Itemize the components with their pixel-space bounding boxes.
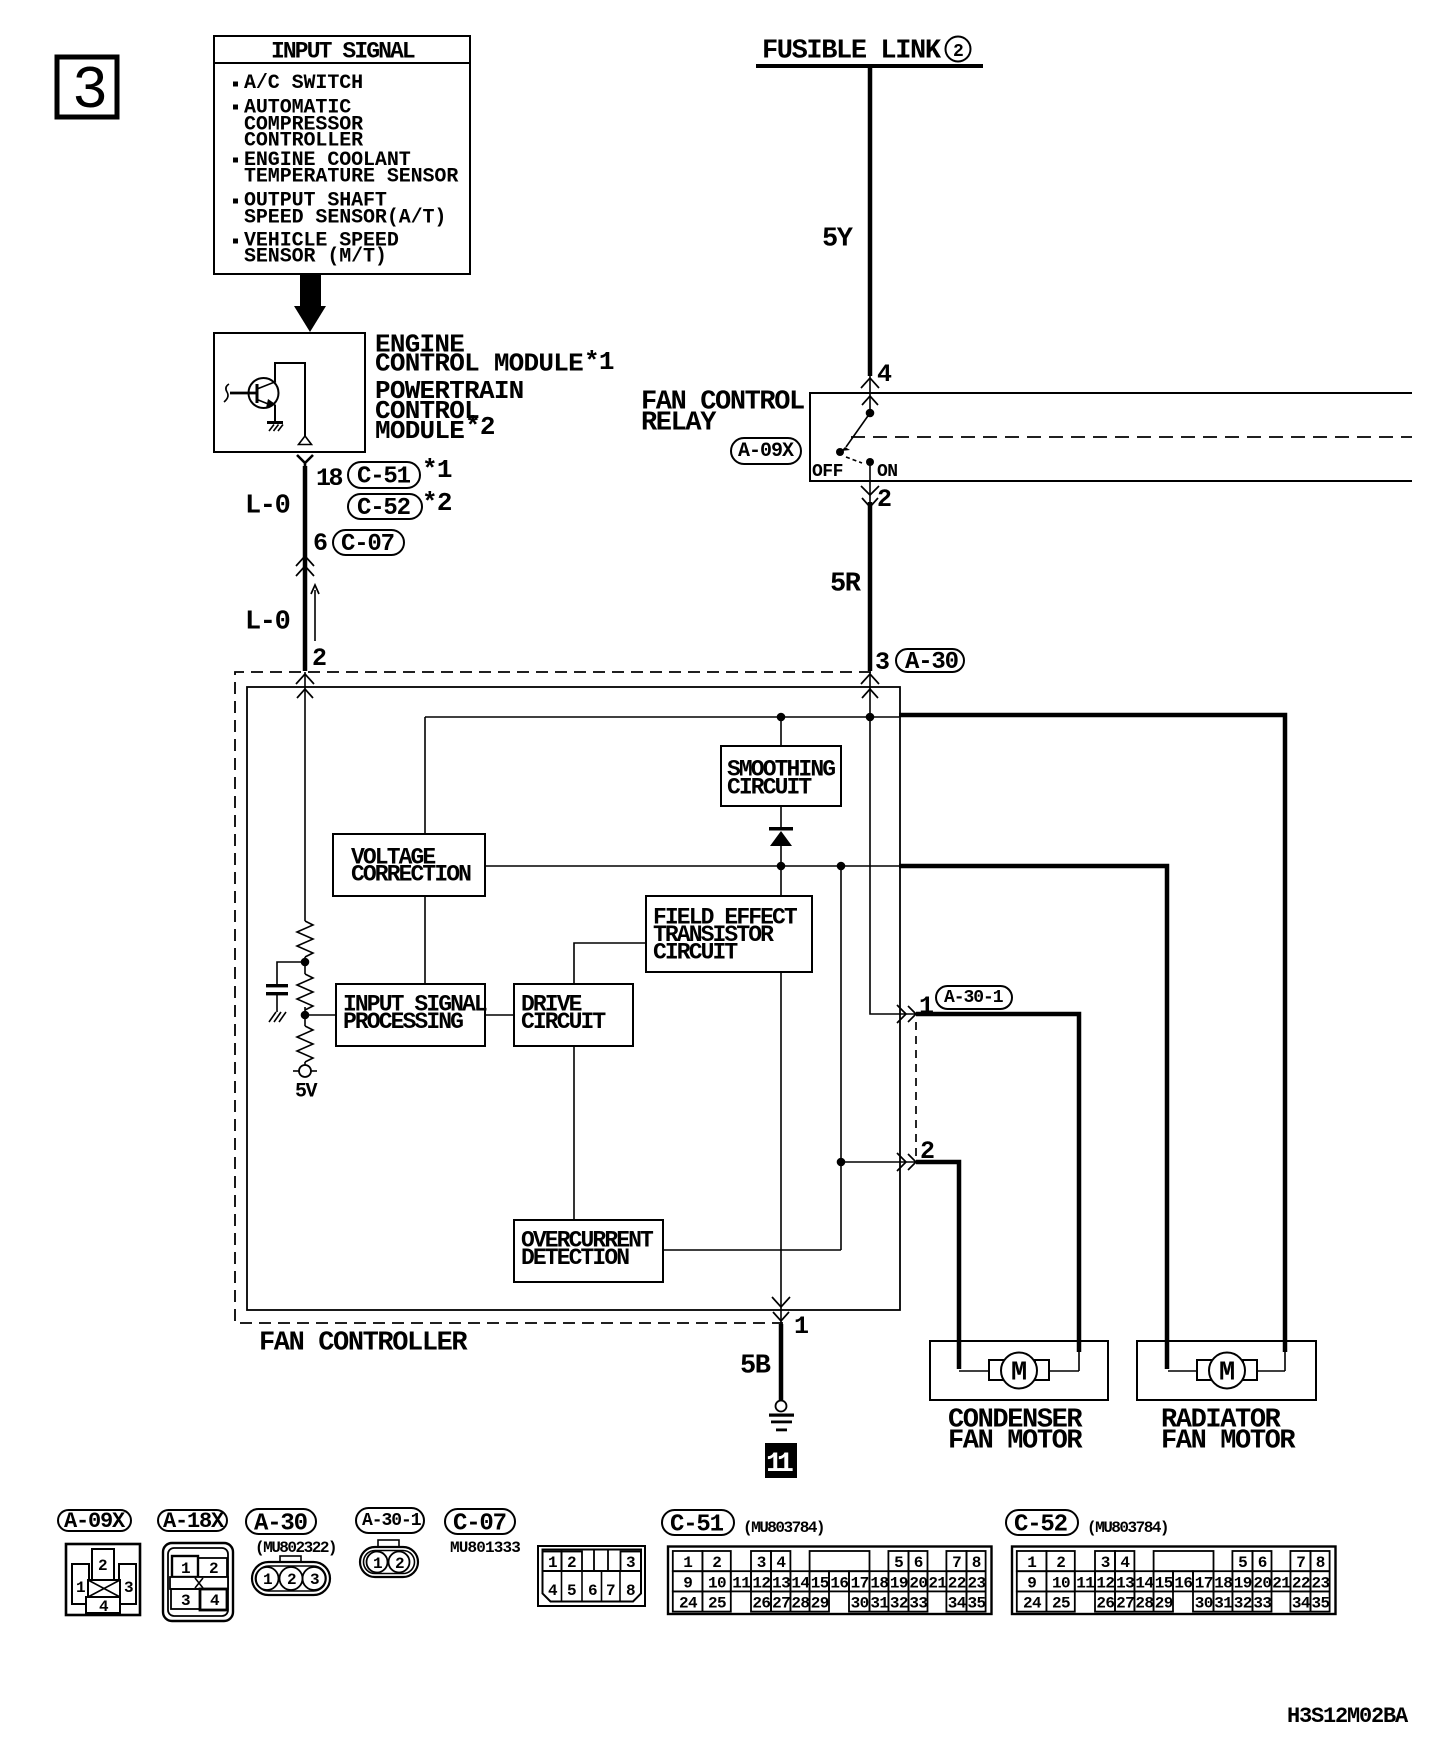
svg-text:6: 6 <box>914 1554 923 1572</box>
svg-text:1: 1 <box>794 1312 808 1341</box>
ground symbol <box>769 1401 794 1432</box>
wire from pin2 to divider <box>304 672 306 921</box>
svg-text:12: 12 <box>752 1574 770 1592</box>
transistor Q1 <box>224 363 312 445</box>
C-52 part number <box>1087 1519 1168 1537</box>
wire label 5B <box>740 1351 771 1381</box>
svg-text:35: 35 <box>1312 1595 1330 1613</box>
svg-text:1: 1 <box>683 1554 692 1572</box>
top bus thin segment <box>425 716 899 718</box>
svg-text:FAN MOTOR: FAN MOTOR <box>948 1426 1083 1456</box>
wire 5B <box>779 1324 784 1400</box>
svg-text:30: 30 <box>1195 1595 1213 1613</box>
svg-text:4: 4 <box>548 1582 558 1600</box>
block: field effect transistor circuit U4 <box>646 896 812 972</box>
svg-text:2: 2 <box>312 644 326 673</box>
wire drive to overcurrent <box>573 1046 575 1220</box>
pin 1 output A-30-1 <box>897 992 933 1023</box>
svg-text:3: 3 <box>310 1571 319 1589</box>
mid bus thin segment <box>485 865 899 867</box>
connector A-30 capsule <box>896 649 964 676</box>
svg-text:6: 6 <box>1258 1554 1267 1572</box>
ON label <box>877 462 898 482</box>
wire ISP to drive <box>485 1014 514 1016</box>
svg-text:1: 1 <box>548 1554 557 1572</box>
svg-text:A-30-1: A-30-1 <box>944 988 1004 1008</box>
capacitor C1 branch <box>266 962 305 1022</box>
svg-text:FAN MOTOR: FAN MOTOR <box>1161 1426 1296 1456</box>
C-07 part number <box>450 1539 520 1557</box>
svg-text:14: 14 <box>1135 1574 1154 1592</box>
wire L-0 from ECM to fan controller pin 2 <box>296 455 314 698</box>
connector A-30-1 capsule <box>936 986 1012 1009</box>
wire mid-bus branch down to pin 2 <box>837 866 918 1250</box>
svg-text:2: 2 <box>953 42 963 62</box>
pin 6 label <box>313 529 327 558</box>
engine control module box <box>214 333 365 452</box>
junction mid bus / diode <box>777 862 786 871</box>
svg-text:17: 17 <box>1195 1574 1213 1592</box>
fan controller dashed boundary <box>235 672 871 1323</box>
svg-text:9: 9 <box>683 1574 692 1592</box>
svg-text:A-18X: A-18X <box>163 1509 225 1534</box>
OFF label <box>812 462 843 482</box>
svg-text:CIRCUIT: CIRCUIT <box>521 1009 606 1035</box>
svg-text:33: 33 <box>1253 1595 1271 1613</box>
svg-text:A-30: A-30 <box>905 649 959 676</box>
block: input signal processing U5 <box>336 984 487 1046</box>
connector A-18X pinout capsule <box>158 1509 227 1534</box>
svg-text:10: 10 <box>1052 1574 1070 1592</box>
diode D1 <box>769 827 793 866</box>
svg-text:21: 21 <box>928 1574 946 1592</box>
radiator fan motor M2 <box>1137 1341 1316 1400</box>
svg-text:26: 26 <box>1096 1595 1114 1613</box>
svg-text:18: 18 <box>316 464 343 493</box>
wire smoothing branch <box>780 717 782 827</box>
resistor R3 <box>297 1026 313 1062</box>
svg-text:C-52: C-52 <box>1014 1511 1067 1538</box>
pin 2 output A-30-1 <box>897 1137 934 1171</box>
svg-text:6: 6 <box>313 529 327 558</box>
connector C-07 pinout drawing <box>538 1546 645 1606</box>
svg-text:34: 34 <box>948 1595 967 1613</box>
svg-text:A-09X: A-09X <box>738 440 794 463</box>
wire FET output down to pin 1 <box>780 972 782 1324</box>
svg-text:3: 3 <box>181 1592 190 1610</box>
svg-text:11: 11 <box>1076 1574 1094 1592</box>
wire pin3 feed down to pin 1 (A-30-1) <box>870 672 918 1014</box>
svg-text:25: 25 <box>1052 1595 1070 1613</box>
svg-text:2: 2 <box>395 1555 404 1573</box>
block: drive circuit U6 <box>514 984 633 1046</box>
svg-text:15: 15 <box>1155 1574 1173 1592</box>
svg-text:7: 7 <box>952 1554 961 1572</box>
svg-text:MODULE: MODULE <box>375 416 464 446</box>
svg-text:1: 1 <box>919 992 933 1021</box>
svg-text:15: 15 <box>811 1574 829 1592</box>
svg-text:*2: *2 <box>422 488 452 518</box>
svg-text:2: 2 <box>209 1560 218 1578</box>
wire label L-0 upper <box>245 491 290 521</box>
svg-text:L-0: L-0 <box>245 491 290 521</box>
svg-text:ON: ON <box>877 462 898 482</box>
junction mid bus / pin2 feed <box>837 862 846 871</box>
svg-text:21: 21 <box>1272 1574 1290 1592</box>
wire overcurrent output <box>663 1249 841 1251</box>
svg-text:H3S12M02BA: H3S12M02BA <box>1287 1704 1409 1729</box>
node A junction <box>301 957 310 974</box>
INPUT SIGNAL box <box>214 36 470 274</box>
svg-text:32: 32 <box>890 1595 908 1613</box>
connector C-51 pinout capsule <box>662 1510 734 1538</box>
wire 5Y <box>868 68 873 376</box>
svg-text:20: 20 <box>1253 1574 1271 1592</box>
svg-text:33: 33 <box>909 1595 927 1613</box>
svg-text:5: 5 <box>894 1554 903 1572</box>
svg-text:C-52: C-52 <box>357 495 410 522</box>
ground reference box 11 <box>765 1443 797 1480</box>
wire diode junction to FET box <box>780 866 782 896</box>
wire label 5R <box>830 569 862 599</box>
relay pin 4 <box>861 360 892 405</box>
svg-text:*2: *2 <box>465 412 495 442</box>
arrow from input signal to ECM <box>294 274 326 332</box>
direction arrow on L-0 wire <box>311 585 319 641</box>
svg-text:(MU803784): (MU803784) <box>743 1519 824 1537</box>
svg-text:19: 19 <box>890 1574 908 1592</box>
svg-text:M: M <box>1011 1359 1027 1389</box>
svg-text:*1: *1 <box>422 455 452 485</box>
svg-text:A-30: A-30 <box>254 1510 308 1537</box>
block: overcurrent detection U7 <box>514 1220 663 1282</box>
svg-text:5: 5 <box>1238 1554 1247 1572</box>
svg-text:1: 1 <box>373 1555 382 1573</box>
fan control relay box A-09X <box>810 393 1412 481</box>
svg-text:CIRCUIT: CIRCUIT <box>727 775 812 801</box>
svg-text:C-51: C-51 <box>357 463 411 490</box>
svg-text:11: 11 <box>732 1574 750 1592</box>
svg-text:2: 2 <box>1056 1554 1065 1572</box>
thick wire pin2 to condenser fan left <box>916 1162 959 1369</box>
connector C-52 capsule <box>348 488 452 522</box>
svg-text:12: 12 <box>1096 1574 1114 1592</box>
svg-text:C-51: C-51 <box>670 1511 724 1538</box>
svg-text:RELAY: RELAY <box>641 408 717 438</box>
svg-text:3: 3 <box>72 58 108 126</box>
svg-text:27: 27 <box>1116 1595 1134 1613</box>
svg-text:(MU802322): (MU802322) <box>255 1539 336 1557</box>
svg-text:M: M <box>1219 1359 1235 1389</box>
svg-text:CIRCUIT: CIRCUIT <box>653 940 738 966</box>
svg-text:OFF: OFF <box>812 462 843 482</box>
svg-text:3: 3 <box>1101 1554 1110 1572</box>
svg-text:4: 4 <box>1120 1554 1130 1572</box>
svg-text:25: 25 <box>708 1595 726 1613</box>
top bus thick segment to radiator fan right <box>899 715 1285 1352</box>
svg-text:18: 18 <box>1214 1574 1232 1592</box>
svg-text:29: 29 <box>1155 1595 1173 1613</box>
resistor R1 <box>297 921 313 957</box>
svg-text:MU801333: MU801333 <box>450 1539 520 1557</box>
page number box 3 <box>57 57 117 126</box>
C-51 part number <box>743 1519 824 1537</box>
svg-text:28: 28 <box>791 1595 809 1613</box>
connector A-09X pinout drawing <box>66 1544 140 1616</box>
svg-text:29: 29 <box>811 1595 829 1613</box>
svg-text:9: 9 <box>1027 1574 1036 1592</box>
connector C-52 pinout capsule <box>1006 1510 1078 1538</box>
connector C-07 capsule <box>333 530 404 558</box>
node B junction to ISP <box>301 1007 336 1026</box>
svg-text:C-07: C-07 <box>341 531 394 558</box>
svg-text:35: 35 <box>968 1595 986 1613</box>
svg-text:13: 13 <box>1116 1574 1134 1592</box>
svg-text:34: 34 <box>1292 1595 1311 1613</box>
svg-text:L-0: L-0 <box>245 607 290 637</box>
junction top bus / smoothing <box>777 713 786 722</box>
wire VC to ISP <box>424 896 426 984</box>
svg-text:2: 2 <box>877 485 891 514</box>
svg-text:2: 2 <box>567 1554 576 1572</box>
svg-text:4: 4 <box>877 360 892 389</box>
svg-text:5: 5 <box>567 1582 576 1600</box>
pin 18 label <box>316 464 343 493</box>
svg-text:7: 7 <box>606 1582 615 1600</box>
block: smoothing circuit U3 <box>721 746 841 806</box>
svg-text:1: 1 <box>181 1560 190 1578</box>
svg-text:27: 27 <box>772 1595 790 1613</box>
svg-text:TEMPERATURE SENSOR: TEMPERATURE SENSOR <box>244 166 458 189</box>
svg-text:20: 20 <box>909 1574 927 1592</box>
drawing number <box>1287 1704 1409 1729</box>
svg-text:31: 31 <box>870 1595 888 1613</box>
svg-text:5Y: 5Y <box>822 224 854 254</box>
svg-text:16: 16 <box>830 1574 848 1592</box>
svg-text:FUSIBLE LINK: FUSIBLE LINK <box>762 36 942 66</box>
svg-text:3: 3 <box>626 1554 635 1572</box>
svg-text:4: 4 <box>776 1554 786 1572</box>
svg-text:5R: 5R <box>830 569 862 599</box>
svg-text:1: 1 <box>777 1449 794 1480</box>
svg-text:5B: 5B <box>740 1351 771 1381</box>
svg-text:14: 14 <box>791 1574 810 1592</box>
thick wire pin1 to condenser fan right <box>916 1014 1079 1352</box>
svg-text:3: 3 <box>875 648 889 677</box>
connector C-52 pinout drawing <box>1012 1547 1336 1615</box>
relay pin 2 <box>861 485 891 514</box>
block: voltage correction U2 <box>333 834 485 896</box>
svg-text:23: 23 <box>1312 1574 1330 1592</box>
svg-text:DETECTION: DETECTION <box>521 1245 629 1271</box>
svg-text:24: 24 <box>1023 1595 1042 1613</box>
fusible link 2 label <box>756 36 983 68</box>
svg-text:23: 23 <box>968 1574 986 1592</box>
svg-text:(MU803784): (MU803784) <box>1087 1519 1168 1537</box>
wire label L-0 lower <box>245 607 290 637</box>
svg-text:1: 1 <box>1027 1554 1036 1572</box>
A-30-1 connector dashed link <box>915 1022 917 1157</box>
radiator fan motor label <box>1161 1405 1296 1456</box>
wire label 5Y <box>822 224 854 254</box>
connector A-09X pinout capsule <box>58 1509 131 1534</box>
svg-text:1: 1 <box>263 1571 272 1589</box>
FAN CONTROLLER label <box>259 1328 468 1358</box>
connector A-30 pinout capsule <box>246 1509 316 1537</box>
svg-text:22: 22 <box>948 1574 966 1592</box>
wire drive to FET <box>574 943 646 985</box>
connector A-18X pinout drawing <box>163 1543 233 1621</box>
svg-text:A-30-1: A-30-1 <box>362 1511 422 1531</box>
connector A-30-1 pinout drawing <box>360 1540 418 1577</box>
svg-text:INPUT SIGNAL: INPUT SIGNAL <box>271 39 415 65</box>
svg-text:6: 6 <box>588 1582 597 1600</box>
fan controller inner box <box>247 687 900 1310</box>
relay switch contact <box>836 376 874 505</box>
svg-text:30: 30 <box>851 1595 869 1613</box>
svg-text:CORRECTION: CORRECTION <box>351 862 471 888</box>
svg-text:26: 26 <box>752 1595 770 1613</box>
svg-text:13: 13 <box>772 1574 790 1592</box>
svg-text:C-07: C-07 <box>453 1510 506 1537</box>
svg-text:4: 4 <box>99 1598 109 1616</box>
svg-text:17: 17 <box>851 1574 869 1592</box>
svg-text:5V: 5V <box>295 1081 318 1104</box>
resistor R2 <box>297 974 313 1010</box>
A-30 part number <box>255 1539 336 1557</box>
svg-text:1: 1 <box>76 1579 85 1597</box>
svg-text:3: 3 <box>124 1579 133 1597</box>
svg-text:18: 18 <box>870 1574 888 1592</box>
svg-text:16: 16 <box>1174 1574 1192 1592</box>
svg-text:CONTROL MODULE: CONTROL MODULE <box>375 349 583 379</box>
svg-text:2: 2 <box>287 1571 296 1589</box>
svg-text:A-09X: A-09X <box>64 1509 126 1534</box>
connector C-51 capsule <box>348 455 452 490</box>
connector C-51 pinout drawing <box>668 1547 992 1615</box>
5V supply terminal <box>293 1062 318 1104</box>
condenser fan motor M1 <box>930 1341 1108 1400</box>
svg-text:4: 4 <box>210 1592 220 1610</box>
svg-text:32: 32 <box>1234 1595 1252 1613</box>
condenser fan motor label <box>948 1405 1083 1456</box>
ECM / PCM labels <box>375 330 614 447</box>
svg-text:3: 3 <box>757 1554 766 1572</box>
svg-text:*1: *1 <box>584 347 614 377</box>
svg-text:FAN CONTROLLER: FAN CONTROLLER <box>259 1328 468 1358</box>
pin 3 into fan controller <box>861 648 889 698</box>
wire 5R <box>868 502 873 671</box>
svg-text:22: 22 <box>1292 1574 1310 1592</box>
svg-text:7: 7 <box>1296 1554 1305 1572</box>
wire VC riser to top bus <box>424 717 426 834</box>
svg-text:10: 10 <box>708 1574 726 1592</box>
connector A-30-1 pinout capsule <box>356 1508 424 1533</box>
svg-text:2: 2 <box>712 1554 721 1572</box>
pin 2 label (fan controller input) <box>312 644 326 673</box>
svg-text:A/C SWITCH: A/C SWITCH <box>244 72 363 95</box>
svg-text:2: 2 <box>98 1557 107 1575</box>
svg-text:28: 28 <box>1135 1595 1153 1613</box>
svg-text:31: 31 <box>1214 1595 1232 1613</box>
junction top bus / pin3 feed <box>866 713 875 722</box>
svg-text:24: 24 <box>679 1595 698 1613</box>
svg-text:8: 8 <box>1316 1554 1325 1572</box>
mid bus thick segment to radiator fan left <box>899 866 1167 1369</box>
connector C-07 pinout capsule <box>445 1509 515 1537</box>
fan control relay name <box>641 387 804 438</box>
svg-text:SPEED SENSOR(A/T): SPEED SENSOR(A/T) <box>244 207 446 230</box>
svg-text:PROCESSING: PROCESSING <box>343 1009 463 1035</box>
connector A-09X capsule <box>731 438 801 464</box>
svg-text:19: 19 <box>1234 1574 1252 1592</box>
svg-text:SENSOR (M/T): SENSOR (M/T) <box>244 246 387 269</box>
svg-text:8: 8 <box>972 1554 981 1572</box>
svg-text:8: 8 <box>626 1582 635 1600</box>
connector A-30 pinout drawing <box>252 1556 330 1595</box>
pin 1 ground output <box>772 1297 808 1341</box>
